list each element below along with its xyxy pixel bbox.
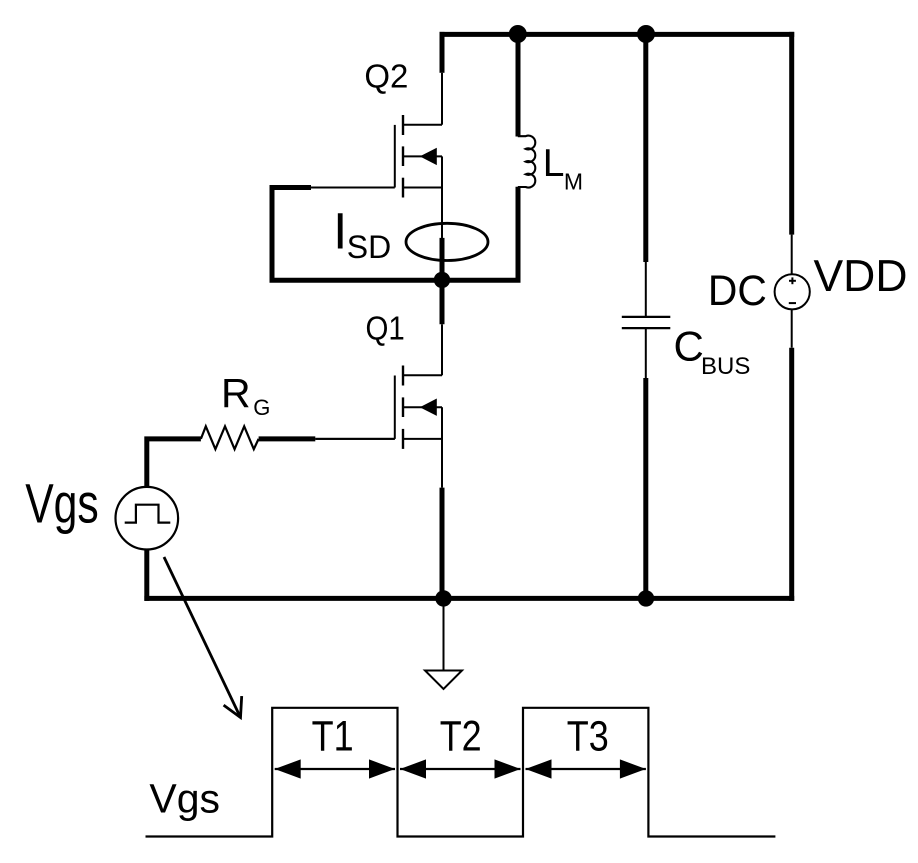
svg-text:Vgs: Vgs xyxy=(149,776,220,822)
svg-text:L: L xyxy=(543,142,565,185)
svg-text:Q1: Q1 xyxy=(366,309,405,346)
svg-text:BUS: BUS xyxy=(701,353,750,380)
svg-text:Vgs: Vgs xyxy=(25,471,99,534)
svg-text:VDD: VDD xyxy=(814,252,908,301)
svg-text:T3: T3 xyxy=(567,712,609,760)
svg-text:M: M xyxy=(564,168,583,194)
svg-text:T1: T1 xyxy=(312,712,354,760)
svg-text:SD: SD xyxy=(347,229,391,265)
svg-text:T2: T2 xyxy=(440,712,482,760)
svg-text:R: R xyxy=(221,370,251,416)
svg-text:C: C xyxy=(674,323,704,370)
svg-text:I: I xyxy=(333,203,347,260)
svg-text:DC: DC xyxy=(708,267,767,315)
svg-text:G: G xyxy=(253,395,270,420)
svg-text:Q2: Q2 xyxy=(364,57,408,94)
